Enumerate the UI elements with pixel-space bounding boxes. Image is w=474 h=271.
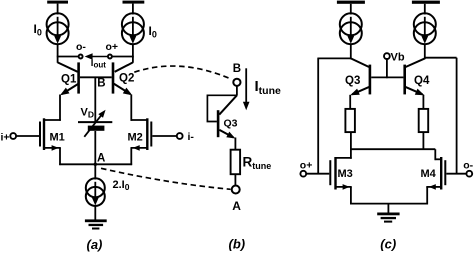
transistor M1 <box>16 118 60 165</box>
svg-text:Q2: Q2 <box>119 73 134 85</box>
wire Q3 emitter to left resistor <box>349 95 351 110</box>
transistor Q1 <box>58 57 80 96</box>
svg-text:i-: i- <box>188 131 195 143</box>
current source I0 right <box>122 13 144 44</box>
transistor Q3 (b) <box>217 95 237 138</box>
node o+ terminal <box>108 55 112 59</box>
wire to far-left rail (c) <box>317 57 350 59</box>
wire cross rail to M4 drain <box>434 149 436 160</box>
node A terminal (b) <box>232 186 240 194</box>
svg-text:A: A <box>232 199 241 213</box>
wire supply to current source right (c) <box>424 4 426 15</box>
svg-text:Vb: Vb <box>391 52 405 64</box>
svg-text:Q1: Q1 <box>61 74 77 86</box>
svg-text:I0: I0 <box>34 22 42 38</box>
current source left (c) <box>340 13 362 44</box>
dashed connection node A of (a) to A of (b) <box>101 168 231 189</box>
svg-text:B: B <box>97 78 105 90</box>
wire M1 source to M2 source (node A rail) <box>59 163 132 165</box>
ground (c) <box>377 213 399 223</box>
svg-text:o-: o- <box>76 41 86 53</box>
supply rail bar right (c) <box>412 1 440 4</box>
wire Q2 emitter to M2 drain <box>130 95 132 121</box>
transistor M4 <box>426 157 466 204</box>
node Vb terminal <box>384 53 390 59</box>
svg-text:M1: M1 <box>50 132 65 144</box>
wire current source left down (c) <box>350 44 352 60</box>
node A wire to tail current source <box>94 131 96 180</box>
node o- terminal (c) <box>466 171 472 177</box>
svg-text:o+: o+ <box>106 41 119 53</box>
svg-text:(b): (b) <box>229 237 246 252</box>
far-right wire down to M4 gate <box>456 58 458 174</box>
svg-text:VD: VD <box>81 107 94 120</box>
node B terminal (b) <box>233 79 240 86</box>
wire M3 source to M4 source (c) <box>350 203 428 205</box>
svg-text:M3: M3 <box>338 168 353 180</box>
junction dot node A <box>94 163 97 166</box>
wire Q1 base to Q2 base <box>80 76 112 78</box>
supply rail bar left (a) <box>47 1 68 4</box>
transistor Q2 <box>112 57 133 96</box>
resistor Rtune <box>231 150 241 175</box>
svg-text:2.I0: 2.I0 <box>113 179 130 192</box>
wire Q1 emitter to M1 drain <box>59 95 61 121</box>
current source I0 left <box>47 13 69 44</box>
transistor Q4 (c) <box>403 58 424 95</box>
svg-text:I0: I0 <box>149 24 157 40</box>
wire drain cross rail (c) <box>351 148 435 150</box>
wire Q4 emitter to right resistor <box>422 95 424 110</box>
varactor VD top plate <box>78 121 112 123</box>
svg-text:i+: i+ <box>1 131 10 143</box>
svg-text:(a): (a) <box>87 237 103 252</box>
wire current source right down <box>132 44 134 58</box>
tail current source 2.I0 <box>86 178 105 206</box>
supply rail bar right (a) <box>123 1 145 4</box>
wire to o- terminal <box>57 56 79 58</box>
node i- terminal <box>177 133 183 139</box>
transistor M2 <box>131 118 177 165</box>
wire right resistor to cross wire <box>422 132 424 150</box>
wire left resistor to drain junction <box>350 132 352 159</box>
node o- terminal <box>79 55 83 59</box>
transistor M3 <box>306 157 351 204</box>
svg-text:M2: M2 <box>128 132 143 144</box>
varactor tuning arrow <box>84 110 105 137</box>
node B wire down to varactor <box>94 77 96 122</box>
node i+ terminal <box>10 133 16 139</box>
svg-text:A: A <box>97 153 105 165</box>
arrow Iout <box>85 53 108 60</box>
svg-text:(c): (c) <box>380 237 396 252</box>
wire current source to o- node <box>57 44 59 57</box>
wire current source right down (c) <box>424 44 426 60</box>
wire supply to current source left (c) <box>350 4 352 15</box>
svg-text:o-: o- <box>463 160 473 172</box>
wire B to Q3 collector <box>236 86 238 96</box>
svg-text:Q3: Q3 <box>345 75 360 87</box>
varactor VD bottom plate <box>88 126 105 131</box>
svg-text:o+: o+ <box>300 159 313 171</box>
svg-text:Q3: Q3 <box>224 118 238 130</box>
supply rail bar left (c) <box>337 1 365 4</box>
svg-text:Itune: Itune <box>255 78 281 97</box>
far-left wire down to M3 gate <box>317 58 319 173</box>
arrow Itune <box>243 68 250 110</box>
wire to ground (c) <box>387 204 389 214</box>
wire o+ to current source right <box>112 56 134 58</box>
svg-text:Q4: Q4 <box>414 75 430 87</box>
current source right (c) <box>414 13 436 44</box>
wire Q3 emitter to Rtune <box>234 138 236 151</box>
wire Rtune to node A (b) <box>234 174 236 185</box>
transistor Q3 (c) <box>350 58 371 95</box>
resistor left (c) <box>345 109 355 132</box>
wire to far-right rail (c) <box>425 57 457 59</box>
node o+ terminal (c) <box>300 171 306 177</box>
svg-text:B: B <box>233 63 241 75</box>
wire Q3 base to Q4 base (c) <box>371 76 403 78</box>
svg-text:Rtune: Rtune <box>243 155 272 172</box>
svg-text:M4: M4 <box>421 168 437 180</box>
wire diode connection loop Q3 base to collector <box>207 95 237 121</box>
dashed connection node B of (a) to B of (b) <box>134 66 232 79</box>
svg-text:Iout: Iout <box>91 58 106 70</box>
ground (a) <box>85 219 107 229</box>
wire supply to current source I0 right <box>132 4 134 15</box>
wire current source to ground <box>94 206 96 221</box>
wire supply to current source I0 left <box>57 4 59 15</box>
resistor right (c) <box>419 109 429 132</box>
wire Vb to bases <box>386 59 388 78</box>
